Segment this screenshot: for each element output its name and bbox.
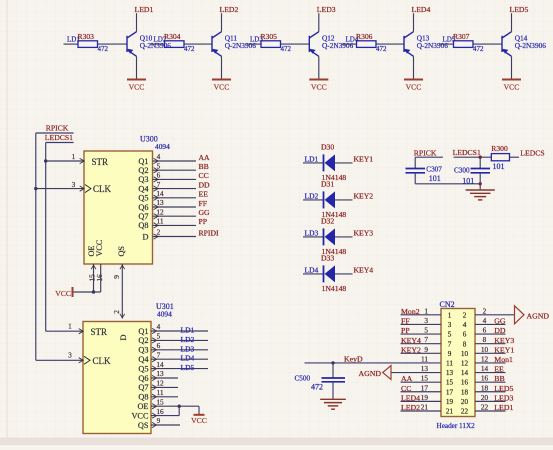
IC U301 4094 body [83, 322, 151, 434]
pin 10 of CN2, net KEY1 [475, 352, 506, 354]
svg-text:16: 16 [156, 407, 164, 416]
pin 19 of CN2, net LED4 [401, 400, 442, 402]
svg-text:LED3: LED3 [494, 393, 513, 402]
svg-text:Q4: Q4 [138, 355, 149, 364]
svg-text:4: 4 [157, 322, 161, 331]
wire U301 Q3 to net LD3 [151, 349, 208, 351]
svg-text:7: 7 [157, 350, 161, 359]
wire resistor R307 to base of Q14 [473, 43, 502, 45]
svg-text:VCC: VCC [311, 83, 327, 92]
wire RPICK down to C307 [414, 157, 416, 168]
svg-text:C307: C307 [426, 165, 442, 173]
pin 1 of CN2, net Mon2 [401, 314, 442, 316]
svg-text:10: 10 [481, 345, 489, 354]
pin 22 of CN2, net LED1 [475, 410, 506, 412]
svg-text:C300: C300 [454, 167, 470, 175]
svg-text:LEDCS1: LEDCS1 [45, 133, 73, 142]
svg-text:AA: AA [401, 374, 413, 383]
pin 14 Q5 of U300, wire to net EE [153, 197, 197, 199]
IC U300 4094 body [84, 151, 153, 264]
junction (LEDCS1 / C300) [479, 156, 482, 159]
wire bus A vertical (RPICK net) [35, 133, 37, 360]
svg-text:D31: D31 [321, 180, 334, 189]
svg-text:2: 2 [483, 306, 487, 315]
svg-text:11: 11 [421, 354, 428, 363]
wire emitter of Q14 to VCC [511, 56, 513, 78]
capacitor C307 [406, 168, 426, 170]
svg-text:15: 15 [446, 379, 454, 387]
svg-text:FF: FF [199, 199, 208, 208]
wire collector of Q10 to LED1 [136, 13, 138, 32]
wire LD3 to diode D32 [303, 236, 324, 238]
diode D31 1N4148 [323, 191, 325, 208]
wire stub U301 Q8 [151, 396, 178, 398]
svg-text:R307: R307 [453, 32, 470, 41]
svg-text:PP: PP [199, 217, 208, 226]
svg-text:Q7: Q7 [138, 383, 148, 392]
transistor Q11 Q-2N3906 [212, 32, 222, 57]
svg-text:D33: D33 [321, 254, 334, 263]
wire U301 Q1 to net LD1 [151, 330, 208, 332]
svg-text:CLK: CLK [93, 356, 112, 366]
wire LEDCS1 bus to U301 pin 1 [46, 330, 83, 332]
svg-text:CC: CC [401, 384, 411, 393]
wire LD1 to diode D30 [303, 162, 324, 164]
pin 12 Q7 of U300, wire to net GG [153, 215, 197, 217]
ground symbol (C500) [320, 398, 346, 400]
svg-text:14: 14 [481, 364, 489, 373]
svg-text:CC: CC [199, 171, 209, 180]
svg-text:LED4: LED4 [401, 393, 420, 402]
svg-text:LED2: LED2 [220, 5, 239, 14]
power port VCC (transistor 3) [309, 79, 328, 81]
svg-text:13: 13 [421, 364, 429, 373]
wire RPICK horizontal [36, 132, 74, 134]
svg-text:EE: EE [199, 190, 209, 199]
wire RPICK bus to U301 pin 3 [36, 359, 83, 361]
wire R300 to LEDCS [510, 156, 520, 158]
svg-text:VCC: VCC [214, 83, 230, 92]
svg-text:1: 1 [68, 321, 72, 330]
svg-text:9: 9 [112, 275, 121, 279]
wire collector of Q11 to LED2 [221, 13, 223, 32]
svg-text:CN2: CN2 [440, 300, 455, 309]
svg-text:21: 21 [421, 403, 429, 412]
svg-text:13: 13 [156, 369, 164, 378]
svg-text:OE: OE [137, 402, 148, 411]
svg-text:4094: 4094 [157, 310, 172, 319]
svg-text:4094: 4094 [155, 142, 170, 151]
wire resistor R305 to base of Q12 [281, 43, 310, 45]
junction (C307 rail / C300 ground) [479, 182, 482, 185]
svg-text:KEY2: KEY2 [354, 192, 374, 201]
resistor R307 [439, 43, 454, 45]
svg-text:2: 2 [463, 311, 467, 319]
svg-text:VCC: VCC [504, 83, 520, 92]
svg-text:13: 13 [446, 369, 454, 377]
svg-text:5: 5 [157, 161, 161, 170]
svg-text:STR: STR [91, 327, 108, 337]
svg-text:14: 14 [156, 189, 164, 198]
svg-text:KEY2: KEY2 [401, 345, 421, 354]
pin 4 Q1 of U300, wire to net AA [153, 160, 197, 162]
port AGND (left) [383, 366, 391, 380]
power port VCC (transistor 2) [212, 79, 231, 81]
svg-text:KEY3: KEY3 [354, 229, 374, 238]
svg-text:101: 101 [429, 174, 441, 183]
svg-text:Q3: Q3 [138, 175, 148, 184]
svg-text:LED1: LED1 [494, 403, 513, 412]
svg-text:5: 5 [424, 326, 428, 335]
svg-text:LD1: LD1 [181, 326, 195, 335]
svg-text:5: 5 [157, 332, 161, 341]
wire U301 Q2 to net LD2 [151, 339, 208, 341]
wire U301 Q5 to net LD5 [151, 368, 208, 370]
svg-text:7: 7 [448, 340, 452, 348]
svg-text:18: 18 [461, 388, 469, 396]
svg-text:LED4: LED4 [412, 5, 431, 14]
svg-text:Q8: Q8 [138, 393, 148, 402]
svg-text:8: 8 [483, 335, 487, 344]
wire KeyD to CN2 pin 11 [305, 362, 442, 364]
svg-text:22: 22 [461, 408, 469, 416]
pin 21 of CN2, net LED2 [401, 410, 442, 412]
svg-text:5: 5 [448, 331, 452, 339]
svg-text:16: 16 [481, 374, 489, 383]
svg-text:11: 11 [156, 217, 163, 226]
wire KeyD down to C500 [332, 363, 334, 378]
pin 17 of CN2, net CC [401, 391, 442, 393]
svg-text:Q5: Q5 [138, 194, 148, 203]
wire collector of Q14 to LED5 [511, 13, 513, 32]
wire diode D30 to KEY1 [335, 162, 353, 164]
pin 3 of CN2, net FF [401, 323, 442, 325]
svg-text:PP: PP [401, 326, 410, 335]
svg-text:7: 7 [157, 180, 161, 189]
wire LEDCS1 horizontal [46, 142, 74, 144]
svg-text:CLK: CLK [93, 184, 112, 194]
resistor R300 [491, 154, 509, 161]
pin 14 of CN2, net EE [475, 372, 506, 374]
svg-text:1: 1 [448, 311, 452, 319]
svg-text:VCC: VCC [95, 239, 104, 256]
svg-text:VCC: VCC [55, 289, 71, 298]
svg-text:VCC: VCC [131, 411, 149, 420]
wire stub U301 Q6 [151, 377, 178, 379]
pin 2 D of U300, wire to net RPIDI [153, 236, 197, 238]
svg-text:4: 4 [157, 152, 161, 161]
svg-text:15: 15 [421, 374, 429, 383]
svg-text:KEY3: KEY3 [494, 336, 514, 345]
wire C500 to ground [332, 382, 334, 399]
svg-text:BB: BB [494, 374, 504, 383]
svg-text:Mon1: Mon1 [494, 355, 513, 364]
pin 18 of CN2, net LED5 [475, 391, 506, 393]
svg-text:LD2: LD2 [181, 335, 195, 344]
svg-text:VCC: VCC [129, 83, 145, 92]
svg-text:AGND: AGND [527, 311, 550, 320]
svg-text:Q2: Q2 [138, 166, 148, 175]
svg-text:17: 17 [421, 383, 429, 392]
power port VCC (transistor 4) [404, 79, 423, 81]
pin 5 Q2 of U300, wire to net BB [153, 169, 197, 171]
svg-text:Q4: Q4 [138, 184, 149, 193]
svg-text:QS: QS [117, 246, 126, 257]
svg-text:2: 2 [157, 228, 161, 237]
svg-text:13: 13 [156, 198, 164, 207]
svg-text:18: 18 [481, 383, 489, 392]
pin 5 of CN2, net PP [401, 333, 442, 335]
pin 7 Q4 of U300, wire to net DD [153, 188, 197, 190]
pin 6 Q3 of U300, wire to net CC [153, 178, 197, 180]
svg-text:12: 12 [156, 379, 164, 388]
wire diode D33 to KEY4 [335, 273, 353, 275]
pin 15 of CN2, net AA [401, 381, 442, 383]
svg-text:DD: DD [494, 326, 506, 335]
svg-text:LD3: LD3 [181, 344, 195, 353]
svg-text:C500: C500 [295, 375, 311, 383]
svg-text:KEY1: KEY1 [354, 155, 374, 164]
svg-text:3: 3 [68, 351, 72, 360]
svg-text:472: 472 [311, 383, 323, 392]
svg-text:Q5: Q5 [138, 364, 148, 373]
svg-text:FF: FF [401, 317, 410, 326]
svg-text:Q7: Q7 [138, 212, 148, 221]
svg-text:3: 3 [448, 321, 452, 329]
wire bus B vertical (LEDCS1 net) [45, 143, 47, 332]
resistor R303 [64, 43, 79, 45]
pin 7 of CN2, net KEY4 [401, 343, 442, 345]
svg-text:VCC: VCC [191, 416, 207, 425]
svg-text:11: 11 [446, 360, 453, 368]
svg-text:R300: R300 [491, 144, 508, 153]
svg-text:472: 472 [98, 45, 109, 53]
pin 11 Q8 of U300, wire to net PP [153, 224, 197, 226]
svg-text:DD: DD [199, 180, 211, 189]
svg-text:6: 6 [157, 171, 161, 180]
svg-text:6: 6 [463, 331, 467, 339]
wire OE junction down to VCC pin row [178, 406, 180, 415]
svg-text:EE: EE [494, 365, 504, 374]
wire LD2 to diode D31 [303, 199, 324, 201]
wire LEDCS1 bus to U300 pin 1 [46, 160, 84, 162]
svg-text:R304: R304 [164, 32, 181, 41]
capacitor C500 [322, 377, 346, 379]
svg-text:Mon2: Mon2 [401, 307, 420, 316]
svg-text:KEY4: KEY4 [401, 336, 421, 345]
svg-text:Q6: Q6 [138, 203, 148, 212]
junction (bus A / CLK U300) [34, 187, 37, 190]
svg-text:12: 12 [481, 354, 489, 363]
diode D33 1N4148 [323, 265, 325, 282]
transistor Q14 Q-2N3906 [502, 32, 512, 57]
wire stub U301 Q7 [151, 386, 178, 388]
svg-text:LED1: LED1 [135, 5, 154, 14]
power port VCC (transistor 5) [502, 79, 521, 81]
svg-text:RPICK: RPICK [46, 124, 69, 133]
wire RPICK (right) [415, 156, 443, 158]
svg-text:BB: BB [199, 162, 209, 171]
svg-text:KeyD: KeyD [344, 354, 363, 363]
svg-text:QS: QS [138, 421, 149, 430]
ground symbol (RC network) [466, 189, 495, 191]
svg-text:Q1: Q1 [138, 157, 148, 166]
junction (OE stub / VCC wire) [92, 290, 95, 293]
wire emitter of Q11 to VCC [221, 56, 223, 78]
pin 4 of CN2, net GG [475, 323, 506, 325]
resistor R305 [247, 43, 262, 45]
svg-text:KEY1: KEY1 [494, 345, 514, 354]
svg-text:6: 6 [157, 341, 161, 350]
svg-text:16: 16 [95, 274, 104, 282]
wire diode D32 to KEY3 [335, 236, 353, 238]
svg-text:472: 472 [281, 45, 292, 53]
pin 16 of CN2, net BB [475, 381, 506, 383]
svg-text:Q6: Q6 [138, 374, 148, 383]
wire collector of Q13 to LED4 [413, 13, 415, 32]
junction (KeyD / C500) [331, 361, 334, 364]
svg-text:Q3: Q3 [138, 346, 148, 355]
svg-text:19: 19 [446, 398, 454, 406]
svg-text:4: 4 [463, 321, 467, 329]
wire U301 Q4 to net LD4 [151, 358, 208, 360]
transistor Q10 Q-2N3906 [127, 32, 137, 57]
svg-text:AA: AA [199, 153, 211, 162]
svg-text:16: 16 [461, 379, 469, 387]
wire RPICK bus to U300 pin 3 [36, 188, 84, 190]
svg-text:10: 10 [461, 350, 469, 358]
svg-text:101: 101 [462, 176, 474, 185]
svg-text:Q2: Q2 [138, 336, 148, 345]
svg-text:D: D [143, 232, 149, 241]
svg-text:D32: D32 [321, 217, 334, 226]
svg-text:LED5: LED5 [494, 384, 513, 393]
wire U301 OE to VCC branch [151, 405, 199, 407]
svg-text:AGND: AGND [358, 369, 381, 378]
resistor R304 [150, 43, 165, 45]
svg-text:1N4148: 1N4148 [322, 284, 347, 293]
svg-text:9: 9 [157, 416, 161, 425]
svg-text:101: 101 [493, 162, 505, 171]
wire C300 bottom to ground [479, 173, 481, 190]
wire C307 bottom to ground rail [414, 173, 416, 184]
wire resistor R306 to base of Q13 [376, 43, 404, 45]
pin 13 Q6 of U300, wire to net FF [153, 206, 197, 208]
svg-text:Q1: Q1 [138, 327, 148, 336]
svg-text:11: 11 [156, 388, 163, 397]
svg-text:9: 9 [424, 345, 428, 354]
svg-text:17: 17 [446, 388, 454, 396]
connector CN2 body [441, 309, 475, 417]
svg-text:4: 4 [483, 316, 487, 325]
svg-text:14: 14 [461, 369, 469, 377]
svg-text:Q8: Q8 [138, 221, 148, 230]
svg-text:20: 20 [481, 393, 489, 402]
junction (OE / VCC net U301) [178, 405, 181, 408]
svg-text:20: 20 [461, 398, 469, 406]
wire LEDCS1 junction down to C300 [479, 157, 481, 168]
power port VCC (U300 supply) [73, 291, 101, 293]
wire emitter of Q13 to VCC [413, 56, 415, 78]
svg-text:LEDCS: LEDCS [520, 149, 544, 158]
svg-text:1: 1 [72, 152, 76, 161]
svg-text:Q-2N3906: Q-2N3906 [515, 41, 547, 50]
svg-text:14: 14 [156, 360, 164, 369]
pin 2 of CN2 wire to AGND port [475, 314, 515, 316]
power port VCC (U301 supply) [198, 406, 200, 414]
svg-text:KEY4: KEY4 [354, 266, 374, 275]
svg-text:LED2: LED2 [401, 403, 420, 412]
resistor R306 [342, 43, 357, 45]
svg-text:R303: R303 [78, 32, 95, 41]
svg-text:R306: R306 [356, 32, 373, 41]
svg-text:LD4: LD4 [181, 354, 195, 363]
diode D30 1N4148 [323, 154, 325, 171]
svg-text:2: 2 [112, 310, 121, 314]
svg-text:3: 3 [72, 180, 76, 189]
svg-text:472: 472 [473, 45, 484, 53]
pin 9 of CN2, net KEY2 [401, 352, 442, 354]
wire stub U301 QS [151, 424, 180, 426]
wire U301 VCC pin to junction [151, 415, 179, 417]
transistor Q12 Q-2N3906 [309, 32, 319, 57]
svg-text:LED3: LED3 [317, 5, 336, 14]
wire LEDCS1 (right) [454, 156, 492, 158]
port AGND (right) [515, 306, 525, 324]
svg-text:12: 12 [461, 360, 469, 368]
svg-text:6: 6 [483, 326, 487, 335]
svg-text:GG: GG [199, 208, 211, 217]
svg-text:RPICK: RPICK [414, 149, 437, 158]
capacitor C300 [471, 168, 491, 170]
svg-text:LED5: LED5 [510, 5, 529, 14]
svg-text:21: 21 [446, 408, 454, 416]
pin 6 of CN2, net DD [475, 333, 506, 335]
svg-text:8: 8 [463, 340, 467, 348]
wire emitter of Q12 to VCC [318, 56, 320, 78]
svg-text:GG: GG [494, 317, 506, 326]
svg-text:1: 1 [424, 306, 428, 315]
svg-text:RPIDI: RPIDI [199, 228, 220, 237]
wire resistor R303 to base of Q10 [98, 43, 128, 45]
svg-text:9: 9 [448, 350, 452, 358]
svg-text:19: 19 [421, 393, 429, 402]
wire diode D31 to KEY2 [335, 199, 353, 201]
power port VCC (transistor 1) [127, 79, 146, 81]
pin 12 of CN2, net Mon1 [475, 362, 506, 364]
svg-text:D: D [119, 335, 128, 341]
svg-text:R305: R305 [261, 32, 278, 41]
transistor Q13 Q-2N3906 [404, 32, 414, 57]
wire collector of Q12 to LED3 [318, 13, 320, 32]
svg-text:15: 15 [156, 397, 164, 406]
svg-text:LD5: LD5 [181, 363, 195, 372]
svg-text:LEDCS1: LEDCS1 [453, 148, 481, 157]
wire resistor R304 to base of Q11 [184, 43, 212, 45]
svg-text:12: 12 [156, 207, 164, 216]
wire emitter of Q10 to VCC [136, 56, 138, 78]
pin 8 of CN2, net KEY3 [475, 343, 506, 345]
svg-text:3: 3 [424, 316, 428, 325]
svg-text:VCC: VCC [406, 83, 422, 92]
wire LD4 to diode D33 [303, 273, 324, 275]
svg-text:D30: D30 [321, 143, 334, 152]
svg-text:Header 11X2: Header 11X2 [437, 422, 476, 430]
pin 20 of CN2, net LED3 [475, 400, 506, 402]
diode D32 1N4148 [323, 228, 325, 245]
junction (bus B / STR U300) [44, 159, 47, 162]
pin 13 of CN2 wire to AGND port [391, 372, 441, 374]
